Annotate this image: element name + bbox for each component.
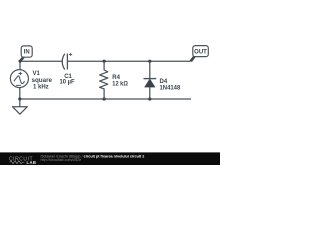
label 1 kHz xyxy=(33,84,49,90)
label 1N4148 xyxy=(160,86,181,92)
diode D4 xyxy=(144,61,157,99)
svg-text:D4: D4 xyxy=(160,79,168,85)
resistor R4 xyxy=(100,61,108,99)
svg-text:R4: R4 xyxy=(112,75,120,81)
junction dot R4 bottom xyxy=(103,97,106,100)
svg-text:square: square xyxy=(32,78,53,84)
svg-text:1N4148: 1N4148 xyxy=(160,86,181,92)
svg-text:10 µF: 10 µF xyxy=(60,80,75,86)
node IN flag xyxy=(20,46,32,61)
label R4 xyxy=(112,75,120,81)
node OUT flag xyxy=(191,46,209,62)
label V1 xyxy=(33,71,41,77)
wire: top rail left segment (node A to C1 left plate) xyxy=(20,60,62,62)
voltage source V1 xyxy=(10,70,28,88)
label D4 xyxy=(160,79,168,85)
footer watermark bar xyxy=(0,152,220,165)
wire: V1 top lead xyxy=(19,61,21,70)
wire: top rail right segment (C1 right plate to OUT end) xyxy=(67,60,190,62)
junction dot D4 bottom xyxy=(148,97,151,100)
svg-text:IN: IN xyxy=(24,50,30,56)
label C1 xyxy=(64,74,72,80)
junction dot R4 top xyxy=(103,60,106,63)
svg-text:http://circuitlab.com/c/52e: http://circuitlab.com/c/52e xyxy=(41,158,82,162)
label 10 µF xyxy=(60,80,75,86)
svg-text:OUT: OUT xyxy=(194,49,207,55)
svg-text:V1: V1 xyxy=(33,71,41,77)
svg-text:LAB: LAB xyxy=(27,160,37,165)
junction dot at V1 bottom / ground xyxy=(18,97,21,100)
node A junction dot (IN attach point) xyxy=(19,60,22,63)
label square xyxy=(32,78,53,84)
wire: V1 bottom lead xyxy=(19,88,21,99)
junction dot D4 top xyxy=(148,60,151,63)
label 12 kOhm xyxy=(112,82,128,88)
capacitor C1 xyxy=(62,53,72,70)
svg-text:1 kHz: 1 kHz xyxy=(33,84,49,90)
ground xyxy=(13,99,28,114)
CircuitLab logo wordmark xyxy=(9,156,36,165)
svg-text:12 kΩ: 12 kΩ xyxy=(112,82,128,88)
wire: bottom rail xyxy=(20,98,191,100)
footer caption line 2 xyxy=(41,158,82,162)
footer caption line 1 xyxy=(41,154,145,158)
